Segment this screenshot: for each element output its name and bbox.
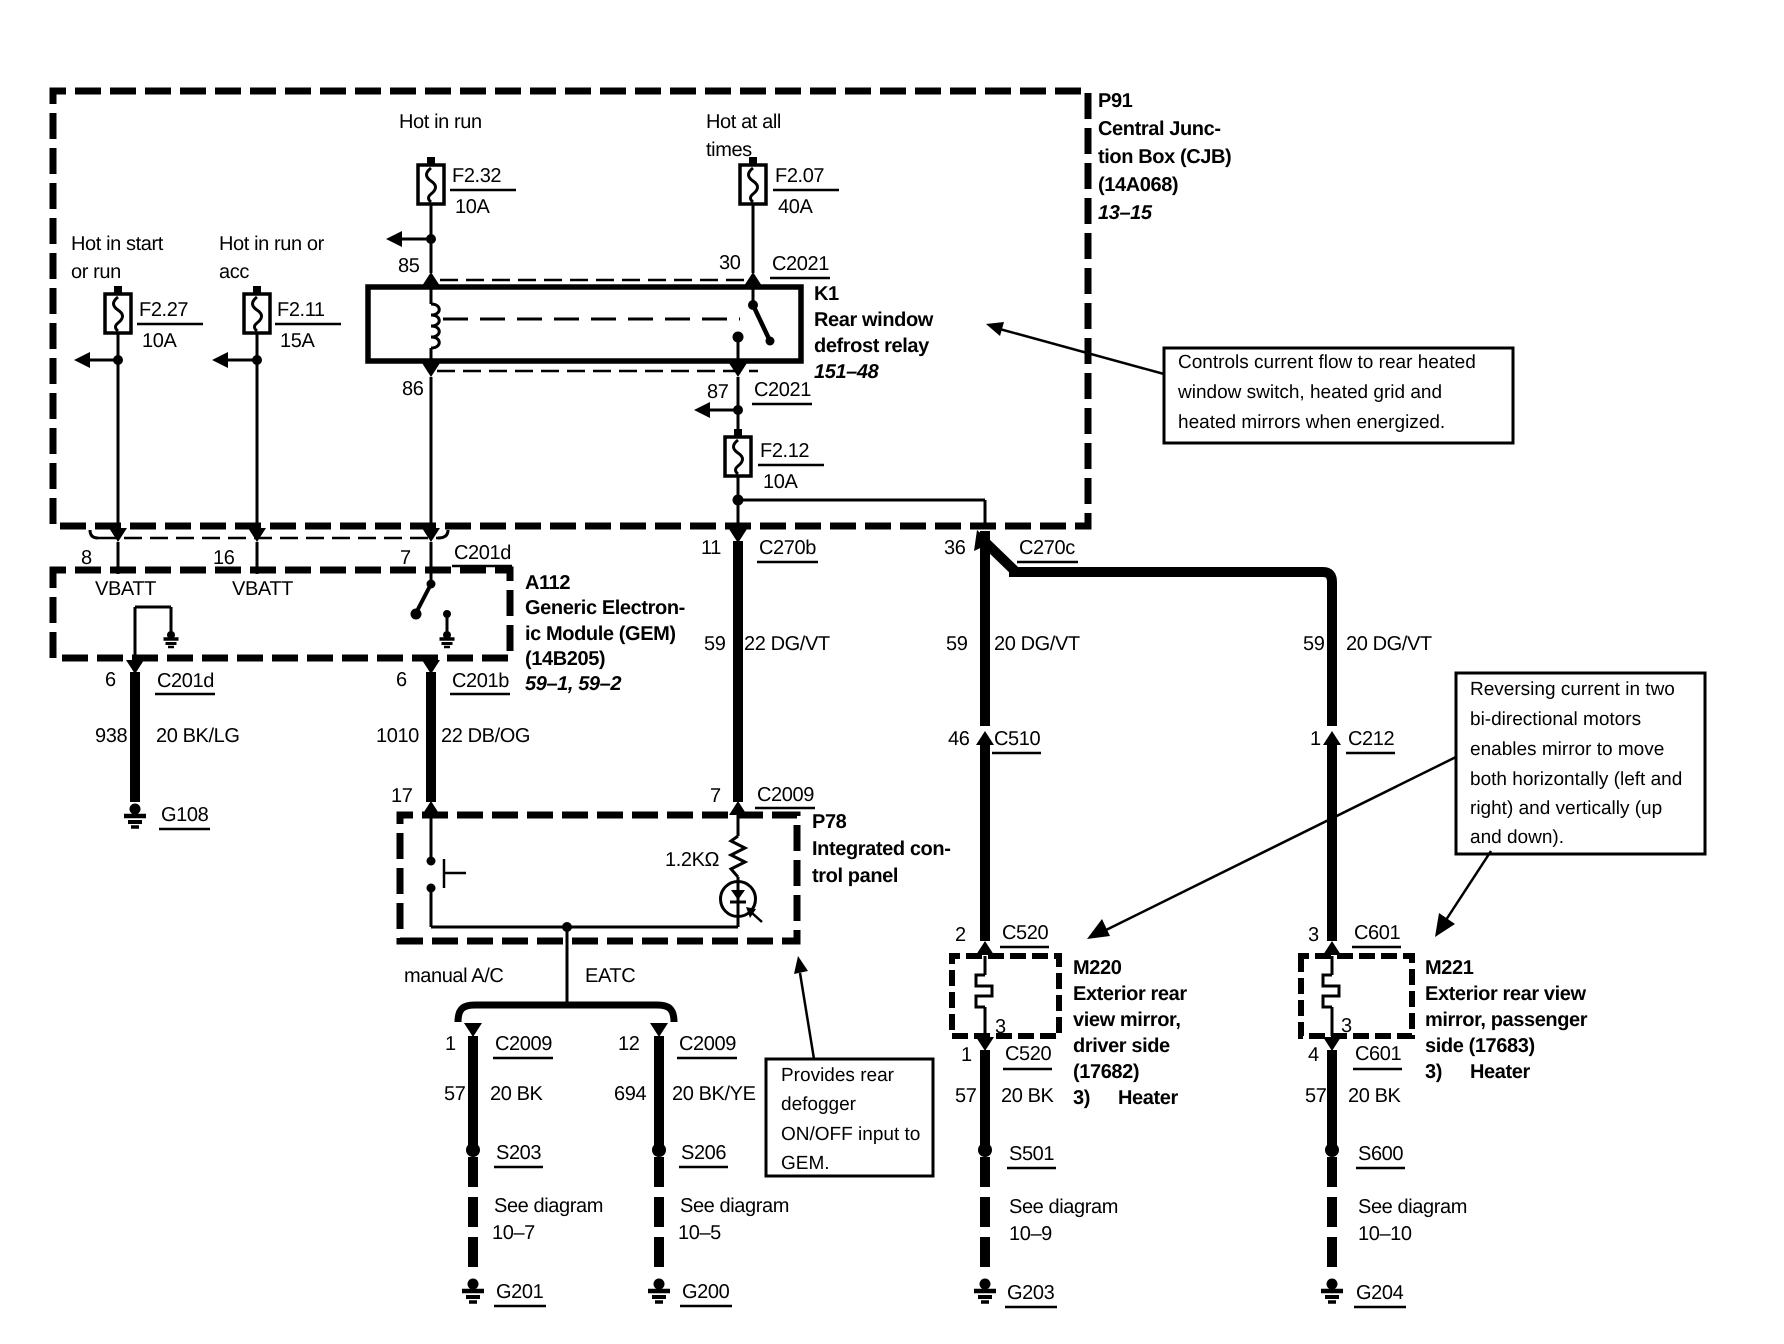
svg-text:10–5: 10–5 — [678, 1222, 721, 1244]
svg-text:Heater: Heater — [1118, 1087, 1178, 1109]
svg-text:Heater: Heater — [1470, 1061, 1530, 1083]
svg-text:10–7: 10–7 — [492, 1222, 535, 1244]
svg-text:1: 1 — [445, 1033, 456, 1055]
svg-text:See diagram: See diagram — [680, 1195, 789, 1217]
svg-text:G108: G108 — [161, 804, 209, 826]
svg-text:(17682): (17682) — [1073, 1061, 1139, 1083]
svg-text:C2021: C2021 — [754, 379, 811, 401]
svg-text:times: times — [706, 139, 752, 161]
svg-text:20 BK/YE: 20 BK/YE — [672, 1083, 756, 1105]
svg-text:59: 59 — [1303, 633, 1325, 655]
svg-text:P91: P91 — [1098, 90, 1133, 112]
svg-text:F2.27: F2.27 — [139, 299, 188, 321]
svg-text:Central Junc-: Central Junc- — [1098, 118, 1221, 140]
svg-text:Exterior rear: Exterior rear — [1073, 983, 1187, 1005]
svg-text:M220: M220 — [1073, 957, 1122, 979]
svg-text:Integrated con-: Integrated con- — [812, 838, 950, 860]
svg-text:(14B205): (14B205) — [525, 648, 605, 670]
svg-text:85: 85 — [398, 255, 420, 277]
svg-text:Provides rear: Provides rear — [781, 1065, 895, 1086]
svg-text:S203: S203 — [496, 1142, 541, 1164]
svg-text:F2.11: F2.11 — [277, 299, 325, 321]
svg-text:C212: C212 — [1348, 728, 1394, 750]
svg-text:bi-directional motors: bi-directional motors — [1470, 709, 1641, 730]
svg-text:3: 3 — [995, 1016, 1006, 1038]
svg-text:See diagram: See diagram — [1009, 1196, 1118, 1218]
svg-text:3): 3) — [1073, 1087, 1090, 1109]
svg-text:Rear window: Rear window — [814, 309, 934, 331]
svg-text:8: 8 — [81, 547, 92, 569]
svg-text:driver side: driver side — [1073, 1035, 1170, 1057]
svg-text:C601: C601 — [1355, 1043, 1401, 1065]
svg-text:G204: G204 — [1356, 1282, 1404, 1304]
svg-text:20 DG/VT: 20 DG/VT — [1346, 633, 1432, 655]
svg-text:A112: A112 — [525, 572, 570, 594]
svg-text:30: 30 — [719, 252, 741, 274]
svg-text:20 BK/LG: 20 BK/LG — [156, 725, 240, 747]
svg-text:S501: S501 — [1009, 1143, 1054, 1165]
svg-text:86: 86 — [402, 378, 424, 400]
svg-text:Generic Electron-: Generic Electron- — [525, 597, 685, 619]
svg-text:K1: K1 — [814, 283, 839, 305]
svg-text:S600: S600 — [1358, 1143, 1403, 1165]
svg-text:694: 694 — [614, 1083, 646, 1105]
svg-text:view mirror,: view mirror, — [1073, 1009, 1180, 1031]
svg-text:36: 36 — [944, 537, 966, 559]
svg-text:enables mirror to move: enables mirror to move — [1470, 739, 1664, 760]
svg-text:Hot at all: Hot at all — [706, 111, 781, 133]
svg-text:defogger: defogger — [781, 1094, 857, 1115]
svg-text:defrost relay: defrost relay — [814, 335, 930, 357]
svg-text:20 BK: 20 BK — [1001, 1085, 1055, 1107]
svg-text:87: 87 — [707, 381, 729, 403]
svg-text:ic Module (GEM): ic Module (GEM) — [525, 623, 676, 645]
svg-text:right) and vertically (up: right) and vertically (up — [1470, 798, 1662, 819]
svg-text:6: 6 — [105, 669, 116, 691]
svg-text:heated mirrors when energized.: heated mirrors when energized. — [1178, 412, 1445, 433]
svg-text:C2009: C2009 — [495, 1033, 552, 1055]
svg-text:1010: 1010 — [376, 725, 419, 747]
svg-text:C201b: C201b — [452, 670, 509, 692]
svg-text:3: 3 — [1341, 1015, 1352, 1037]
svg-text:F2.12: F2.12 — [760, 440, 809, 462]
svg-text:10–10: 10–10 — [1358, 1223, 1412, 1245]
svg-text:C520: C520 — [1002, 922, 1048, 944]
svg-text:40A: 40A — [778, 196, 813, 218]
svg-text:C510: C510 — [994, 728, 1040, 750]
svg-text:GEM.: GEM. — [781, 1153, 830, 1174]
svg-text:window switch, heated grid and: window switch, heated grid and — [1177, 382, 1442, 403]
svg-text:or run: or run — [71, 261, 121, 283]
svg-text:Hot in run: Hot in run — [399, 111, 482, 133]
svg-text:(14A068): (14A068) — [1098, 174, 1178, 196]
svg-text:manual A/C: manual A/C — [404, 965, 503, 987]
svg-text:46: 46 — [948, 728, 970, 750]
svg-text:3: 3 — [1308, 924, 1319, 946]
svg-text:10A: 10A — [763, 471, 798, 493]
svg-text:57: 57 — [1305, 1085, 1327, 1107]
svg-text:G203: G203 — [1007, 1282, 1055, 1304]
svg-text:57: 57 — [955, 1085, 977, 1107]
svg-text:C270b: C270b — [759, 537, 816, 559]
svg-text:C2009: C2009 — [757, 784, 814, 806]
svg-text:3): 3) — [1425, 1061, 1442, 1083]
svg-text:151–48: 151–48 — [814, 361, 880, 383]
svg-text:C2021: C2021 — [772, 253, 829, 275]
svg-text:C520: C520 — [1005, 1043, 1051, 1065]
svg-text:Exterior rear view: Exterior rear view — [1425, 983, 1587, 1005]
svg-text:57: 57 — [444, 1083, 466, 1105]
svg-text:59: 59 — [946, 633, 968, 655]
svg-text:Hot in start: Hot in start — [71, 233, 164, 255]
svg-text:G200: G200 — [682, 1281, 730, 1303]
svg-text:1.2KΩ: 1.2KΩ — [665, 849, 720, 871]
svg-text:2: 2 — [955, 924, 966, 946]
svg-text:C201d: C201d — [157, 670, 214, 692]
svg-text:17: 17 — [391, 785, 413, 807]
svg-text:mirror, passenger: mirror, passenger — [1425, 1009, 1588, 1031]
svg-text:20 DG/VT: 20 DG/VT — [994, 633, 1080, 655]
svg-text:S206: S206 — [681, 1142, 726, 1164]
svg-text:6: 6 — [396, 669, 407, 691]
svg-text:10A: 10A — [455, 196, 490, 218]
svg-text:12: 12 — [618, 1033, 640, 1055]
svg-text:59: 59 — [704, 633, 726, 655]
svg-text:EATC: EATC — [585, 965, 635, 987]
svg-text:16: 16 — [213, 547, 235, 569]
svg-text:both horizontally (left and: both horizontally (left and — [1470, 769, 1682, 790]
svg-text:trol panel: trol panel — [812, 865, 898, 887]
svg-text:7: 7 — [400, 547, 411, 569]
svg-text:P78: P78 — [812, 811, 847, 833]
svg-text:M221: M221 — [1425, 957, 1474, 979]
svg-text:1: 1 — [1310, 728, 1321, 750]
svg-text:938: 938 — [95, 725, 127, 747]
svg-text:20 BK: 20 BK — [1348, 1085, 1402, 1107]
svg-text:4: 4 — [1308, 1044, 1319, 1066]
svg-text:10A: 10A — [142, 330, 177, 352]
svg-text:tion Box (CJB): tion Box (CJB) — [1098, 146, 1231, 168]
svg-text:VBATT: VBATT — [95, 578, 156, 600]
svg-text:VBATT: VBATT — [232, 578, 293, 600]
svg-text:C270c: C270c — [1019, 537, 1075, 559]
svg-text:1: 1 — [961, 1044, 972, 1066]
svg-text:acc: acc — [219, 261, 249, 283]
svg-text:59–1, 59–2: 59–1, 59–2 — [525, 673, 621, 695]
svg-text:C2009: C2009 — [679, 1033, 736, 1055]
svg-text:15A: 15A — [280, 330, 315, 352]
svg-text:C201d: C201d — [454, 542, 511, 564]
svg-text:F2.07: F2.07 — [775, 165, 824, 187]
svg-text:22 DB/OG: 22 DB/OG — [441, 725, 530, 747]
svg-text:7: 7 — [710, 785, 721, 807]
svg-text:Controls current flow to rear: Controls current flow to rear heated — [1178, 352, 1476, 373]
svg-text:C601: C601 — [1354, 922, 1400, 944]
svg-text:Hot in run or: Hot in run or — [219, 233, 325, 255]
svg-text:22 DG/VT: 22 DG/VT — [744, 633, 830, 655]
svg-text:G201: G201 — [496, 1281, 544, 1303]
svg-text:See diagram: See diagram — [1358, 1196, 1467, 1218]
svg-text:See diagram: See diagram — [494, 1195, 603, 1217]
svg-text:side (17683): side (17683) — [1425, 1035, 1535, 1057]
svg-text:F2.32: F2.32 — [452, 165, 501, 187]
svg-text:13–15: 13–15 — [1098, 202, 1153, 224]
svg-text:ON/OFF input to: ON/OFF input to — [781, 1124, 920, 1145]
svg-text:20 BK: 20 BK — [490, 1083, 544, 1105]
svg-text:10–9: 10–9 — [1009, 1223, 1052, 1245]
svg-text:11: 11 — [701, 537, 721, 559]
svg-text:and down).: and down). — [1470, 827, 1564, 848]
svg-text:Reversing current in two: Reversing current in two — [1470, 679, 1675, 700]
